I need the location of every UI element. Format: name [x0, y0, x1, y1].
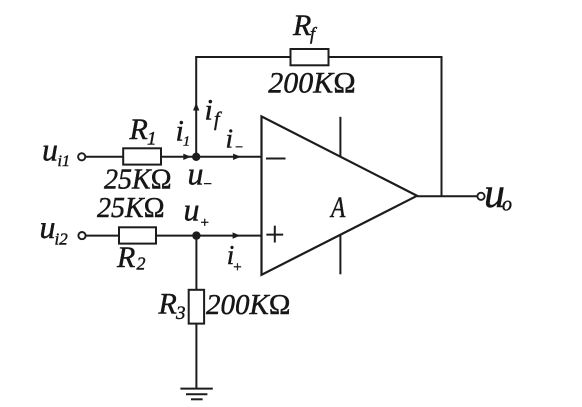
svg-text:i: i — [226, 124, 234, 154]
op-amp inverting input symbol (minus) — [266, 158, 286, 160]
svg-text:R: R — [158, 288, 177, 321]
svg-text:i: i — [205, 94, 213, 127]
svg-text:25KΩ: 25KΩ — [104, 165, 172, 196]
wire: R1 to node u- (with current arrow i1) — [161, 156, 196, 158]
svg-text:2: 2 — [137, 254, 146, 274]
label Rf — [292, 9, 318, 44]
op-amp positive supply pin — [339, 117, 341, 157]
svg-text:1: 1 — [183, 135, 190, 150]
wire: node u- to op-amp inverting input (with current arrow i-) — [196, 156, 261, 158]
label i+ (non-inverting input current) — [227, 240, 242, 276]
svg-text:R: R — [129, 113, 148, 146]
svg-text:u: u — [40, 209, 56, 245]
label u_o (output voltage) — [484, 171, 512, 217]
svg-text:+: + — [233, 260, 241, 276]
svg-text:i2: i2 — [55, 230, 69, 249]
wire: R2 to node u+ — [156, 235, 196, 237]
wire: R3 to ground — [195, 324, 197, 389]
svg-text:R: R — [116, 241, 135, 274]
terminal u_i1 — [78, 153, 85, 160]
label R3 — [158, 288, 186, 325]
wire: node u+ to op-amp non-inverting input (with current arrow i+) — [196, 235, 261, 237]
svg-text:+: + — [201, 215, 209, 231]
resistor R2 — [119, 227, 156, 243]
terminal u_o — [477, 193, 484, 200]
node u+ — [192, 231, 200, 239]
label u+ (non-inverting node voltage) — [184, 192, 209, 232]
label i1 — [176, 115, 191, 150]
label u_i1 — [42, 132, 70, 171]
wire: feedback riser from node u- (with current arrow if) — [195, 57, 197, 157]
label if (feedback current) — [205, 94, 223, 131]
op-amp U1 triangle — [262, 116, 418, 274]
wire: feedback top left segment — [195, 56, 290, 58]
svg-text:−: − — [235, 140, 243, 155]
op-amp non-inverting input symbol (plus) — [266, 226, 283, 243]
op-amp negative supply pin — [339, 236, 341, 275]
svg-text:200KΩ: 200KΩ — [268, 67, 355, 100]
wire: feedback top right segment and drop to output — [329, 57, 442, 196]
svg-text:u: u — [188, 156, 204, 192]
resistor Rf — [291, 49, 329, 65]
label u- (inverting node voltage) — [188, 156, 212, 193]
ground — [180, 389, 212, 400]
label R2 — [116, 241, 146, 274]
svg-text:R: R — [292, 9, 311, 42]
svg-text:f: f — [214, 109, 222, 131]
svg-text:25KΩ: 25KΩ — [97, 193, 165, 224]
svg-text:u: u — [184, 192, 200, 228]
label i- (inverting input current) — [226, 124, 244, 156]
terminal u_i2 — [78, 232, 85, 239]
wire: node u+ down to R3 — [195, 236, 197, 290]
svg-text:o: o — [502, 194, 512, 216]
svg-text:1: 1 — [147, 129, 157, 150]
resistor R1 — [123, 148, 161, 164]
svg-text:200KΩ: 200KΩ — [206, 289, 290, 321]
svg-text:−: − — [204, 176, 212, 192]
svg-text:A: A — [329, 190, 346, 223]
svg-text:u: u — [42, 132, 58, 168]
svg-text:i1: i1 — [58, 153, 70, 170]
wire: u_i2 terminal to R2 — [86, 235, 119, 237]
svg-text:f: f — [310, 24, 318, 44]
node u- — [192, 153, 200, 161]
resistor R3 — [189, 290, 204, 324]
svg-text:3: 3 — [175, 303, 186, 324]
wire: op-amp output — [417, 195, 477, 197]
label R1 — [129, 113, 157, 150]
label u_i2 — [40, 209, 69, 249]
wire: u_i1 terminal to R1 — [86, 156, 123, 158]
